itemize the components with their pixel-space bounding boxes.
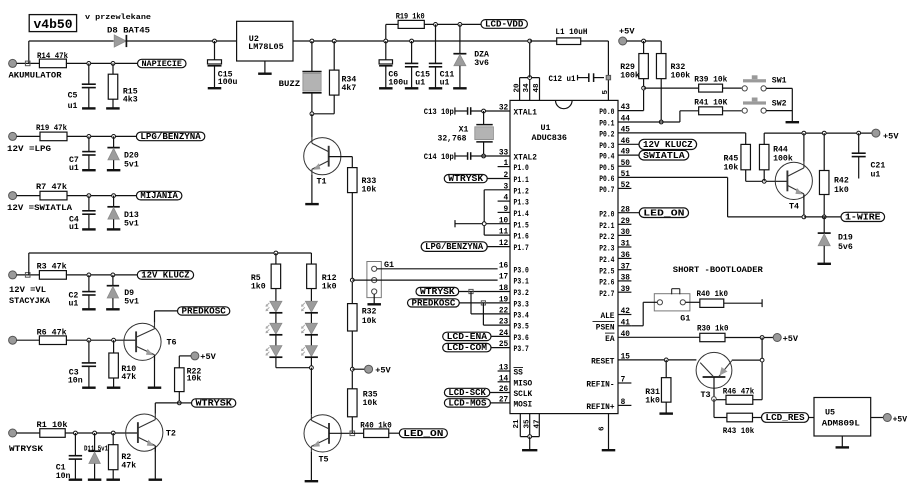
svg-text:+5V: +5V (893, 415, 908, 424)
svg-text:P3.6: P3.6 (514, 335, 530, 343)
svg-text:P3.3: P3.3 (514, 302, 530, 310)
svg-text:P0.7: P0.7 (599, 187, 615, 195)
svg-text:U1: U1 (541, 123, 551, 133)
svg-text:R45: R45 (724, 155, 739, 164)
svg-text:1k0: 1k0 (322, 282, 337, 292)
svg-text:37: 37 (621, 263, 631, 271)
svg-text:LCD-ENA: LCD-ENA (447, 331, 488, 342)
svg-text:D9: D9 (124, 289, 134, 298)
svg-text:u1: u1 (440, 78, 450, 87)
svg-text:4k3: 4k3 (123, 95, 138, 105)
svg-text:P3.2: P3.2 (514, 290, 530, 298)
svg-text:C21: C21 (871, 162, 886, 171)
svg-text:T5: T5 (319, 454, 329, 464)
svg-text:R30 1k0: R30 1k0 (697, 325, 729, 334)
svg-text:17: 17 (499, 274, 509, 282)
svg-text:+5V: +5V (619, 26, 635, 36)
svg-text:P1.4: P1.4 (514, 211, 530, 219)
svg-text:LPG/BENZYNA: LPG/BENZYNA (140, 131, 201, 142)
svg-text:P0.1: P0.1 (599, 121, 615, 129)
svg-text:P2.2: P2.2 (599, 234, 615, 242)
svg-text:u1: u1 (69, 164, 79, 173)
svg-text:u1: u1 (69, 223, 79, 232)
svg-text:T3: T3 (701, 390, 711, 400)
svg-text:LCD-VDD: LCD-VDD (485, 19, 524, 30)
svg-text:P3.4: P3.4 (514, 313, 530, 321)
svg-text:L1 10uH: L1 10uH (555, 28, 587, 37)
svg-text:10k: 10k (362, 316, 377, 326)
svg-text:50: 50 (621, 160, 631, 168)
svg-text:LED_ON: LED_ON (643, 207, 684, 218)
svg-text:47k: 47k (121, 461, 136, 471)
svg-text:SW2: SW2 (772, 99, 787, 108)
svg-text:P3.7: P3.7 (514, 346, 530, 354)
svg-text:ALE: ALE (600, 313, 614, 321)
svg-text:v4b50: v4b50 (34, 17, 73, 32)
svg-text:MOSI: MOSI (514, 402, 533, 410)
svg-text:P3.1: P3.1 (514, 279, 530, 287)
svg-text:4: 4 (504, 195, 509, 203)
svg-text:D13: D13 (124, 211, 139, 220)
svg-text:MIJANIA: MIJANIA (140, 191, 178, 201)
svg-text:P2.1: P2.1 (599, 223, 615, 231)
svg-text:P1.0: P1.0 (514, 165, 530, 173)
svg-text:SW1: SW1 (772, 76, 787, 85)
svg-text:10k: 10k (363, 398, 378, 408)
svg-text:12V =VL: 12V =VL (9, 285, 46, 295)
svg-text:32,768: 32,768 (438, 134, 467, 143)
svg-text:47: 47 (534, 419, 542, 429)
svg-text:P0.3: P0.3 (599, 143, 615, 151)
svg-text:38: 38 (621, 275, 631, 283)
svg-text:REFIN+: REFIN+ (586, 404, 614, 412)
svg-text:R40 1k0: R40 1k0 (697, 290, 729, 299)
svg-text:P1.6: P1.6 (514, 234, 530, 242)
svg-text:7: 7 (621, 377, 626, 385)
svg-text:SWIATLA: SWIATLA (643, 150, 685, 161)
svg-text:16: 16 (499, 262, 509, 270)
svg-text:1k0: 1k0 (834, 185, 849, 195)
svg-text:P0.4: P0.4 (599, 154, 615, 162)
svg-text:AKUMULATOR: AKUMULATOR (9, 71, 63, 81)
svg-text:1k0: 1k0 (251, 282, 266, 292)
svg-text:12V KLUCZ: 12V KLUCZ (141, 271, 189, 281)
svg-text:5: 5 (602, 90, 610, 95)
svg-text:EA: EA (605, 336, 615, 344)
svg-text:+5V: +5V (883, 131, 899, 141)
svg-text:36: 36 (621, 252, 631, 260)
svg-text:MISO: MISO (514, 380, 533, 388)
svg-text:+5V: +5V (200, 352, 216, 362)
svg-text:D19: D19 (838, 234, 853, 243)
svg-text:v przewlekane: v przewlekane (85, 14, 152, 22)
svg-text:52: 52 (621, 182, 631, 190)
svg-text:P0.5: P0.5 (599, 165, 615, 173)
svg-text:100u: 100u (388, 78, 408, 87)
svg-text:LCD_RES: LCD_RES (766, 412, 806, 423)
svg-text:31: 31 (621, 241, 631, 249)
svg-text:12V KLUCZ: 12V KLUCZ (643, 139, 693, 150)
svg-text:100k: 100k (671, 70, 691, 80)
svg-text:LPG/BENZYNA: LPG/BENZYNA (425, 242, 484, 252)
svg-text:P2.5: P2.5 (599, 268, 615, 276)
svg-text:P3.0: P3.0 (514, 267, 530, 275)
svg-text:10k: 10k (724, 163, 739, 173)
svg-text:u1: u1 (871, 171, 881, 180)
svg-text:U5: U5 (825, 407, 835, 417)
svg-text:5v6: 5v6 (838, 243, 853, 252)
svg-text:1: 1 (504, 160, 509, 168)
svg-text:9: 9 (504, 206, 509, 214)
svg-text:P1.3: P1.3 (514, 200, 530, 208)
svg-text:13: 13 (499, 365, 509, 373)
svg-text:100k: 100k (620, 70, 640, 80)
svg-text:C5: C5 (68, 92, 78, 101)
svg-text:PSEN: PSEN (596, 324, 615, 332)
svg-text:T2: T2 (166, 429, 176, 439)
svg-text:10k: 10k (187, 374, 202, 384)
svg-text:R39 10k: R39 10k (694, 76, 727, 85)
svg-text:35: 35 (524, 419, 532, 429)
svg-text:R32: R32 (362, 308, 377, 317)
svg-text:12V =SWIATLA: 12V =SWIATLA (7, 203, 73, 213)
svg-text:C14 10p: C14 10p (424, 153, 454, 162)
svg-text:100u: 100u (218, 78, 238, 87)
svg-text:LCD-MOS: LCD-MOS (448, 398, 487, 409)
svg-text:42: 42 (621, 308, 631, 316)
svg-text:PREDKOSC: PREDKOSC (182, 306, 227, 317)
svg-text:P0.6: P0.6 (599, 176, 615, 184)
svg-text:T4: T4 (789, 202, 799, 212)
svg-text:ADM809L: ADM809L (822, 419, 860, 429)
svg-text:WTRYSK: WTRYSK (196, 398, 233, 409)
svg-text:R42: R42 (834, 177, 849, 186)
svg-text:5v1: 5v1 (124, 220, 139, 229)
svg-text:REFIN-: REFIN- (586, 382, 614, 390)
svg-text:P1.2: P1.2 (514, 188, 530, 196)
svg-text:C12 u1: C12 u1 (549, 75, 576, 84)
svg-text:STACYJKA: STACYJKA (9, 296, 51, 306)
svg-text:PREDKOSC: PREDKOSC (412, 298, 456, 309)
svg-text:P2.6: P2.6 (599, 280, 615, 288)
svg-text:P2.0: P2.0 (599, 211, 615, 219)
svg-text:C13 10p: C13 10p (424, 108, 454, 117)
svg-text:48: 48 (533, 83, 541, 93)
svg-text:T1: T1 (317, 176, 327, 186)
svg-text:LED_ON: LED_ON (403, 428, 443, 439)
svg-text:1k0: 1k0 (645, 395, 660, 405)
svg-text:39: 39 (621, 286, 631, 294)
svg-text:LM78L05: LM78L05 (248, 42, 284, 52)
svg-text:+5V: +5V (375, 366, 391, 376)
svg-text:SCLK: SCLK (514, 391, 533, 399)
svg-text:X1: X1 (459, 126, 469, 135)
svg-text:4k7: 4k7 (342, 83, 357, 93)
svg-text:SS: SS (514, 370, 524, 378)
svg-text:XTAL1: XTAL1 (514, 110, 538, 118)
svg-text:P2.7: P2.7 (599, 291, 615, 299)
svg-text:P2.4: P2.4 (599, 257, 615, 265)
svg-text:R2: R2 (121, 453, 131, 462)
svg-text:5v1: 5v1 (124, 298, 139, 307)
svg-text:P3.5: P3.5 (514, 324, 530, 332)
svg-text:u1: u1 (415, 78, 425, 87)
svg-text:WTRYSK: WTRYSK (448, 173, 483, 184)
svg-text:6: 6 (599, 426, 607, 431)
svg-text:10n: 10n (68, 377, 83, 386)
svg-text:T6: T6 (167, 338, 177, 348)
svg-text:10k: 10k (362, 185, 377, 195)
svg-text:WTRYSK: WTRYSK (420, 286, 455, 297)
svg-text:D8 BAT45: D8 BAT45 (107, 27, 150, 36)
svg-text:34: 34 (523, 83, 531, 93)
svg-text:LCD-COM: LCD-COM (447, 342, 488, 353)
svg-text:P1.7: P1.7 (514, 245, 530, 253)
svg-text:WTRYSK: WTRYSK (9, 444, 44, 454)
svg-text:SHORT -BOOTLOADER: SHORT -BOOTLOADER (673, 265, 764, 275)
svg-text:D20: D20 (124, 152, 139, 161)
svg-text:3v6: 3v6 (474, 59, 489, 68)
svg-text:BUZZ: BUZZ (279, 79, 301, 89)
svg-text:14: 14 (499, 375, 509, 383)
svg-text:ADUC836: ADUC836 (532, 133, 568, 143)
svg-text:5v1: 5v1 (124, 160, 139, 169)
svg-text:u1: u1 (69, 299, 79, 308)
svg-text:29: 29 (621, 218, 631, 226)
svg-text:100k: 100k (773, 154, 793, 164)
svg-text:10n: 10n (56, 472, 71, 481)
svg-text:NAPIECIE: NAPIECIE (142, 59, 183, 69)
svg-text:30: 30 (621, 229, 631, 237)
svg-text:XTAL2: XTAL2 (514, 155, 538, 163)
svg-text:R43 10k: R43 10k (723, 427, 755, 436)
svg-text:D11 5v1: D11 5v1 (84, 446, 108, 454)
svg-text:P2.3: P2.3 (599, 246, 615, 254)
svg-text:47k: 47k (121, 372, 136, 382)
svg-text:P1.1: P1.1 (514, 177, 530, 185)
svg-text:8: 8 (621, 399, 626, 407)
svg-text:P0.0: P0.0 (599, 109, 615, 117)
svg-text:20: 20 (513, 83, 521, 93)
svg-text:RESET: RESET (591, 359, 615, 367)
svg-text:+5V: +5V (783, 334, 799, 344)
svg-text:21: 21 (513, 419, 521, 429)
svg-text:R44: R44 (773, 146, 788, 155)
svg-text:R19 1k0: R19 1k0 (396, 12, 425, 21)
svg-text:12V =LPG: 12V =LPG (7, 144, 51, 154)
svg-text:R14 47k: R14 47k (37, 52, 68, 61)
svg-text:P0.2: P0.2 (599, 132, 615, 140)
svg-text:G1: G1 (680, 313, 690, 323)
svg-text:u1: u1 (68, 102, 78, 111)
svg-text:1-WIRE: 1-WIRE (845, 212, 881, 223)
svg-text:P1.5: P1.5 (514, 222, 530, 230)
